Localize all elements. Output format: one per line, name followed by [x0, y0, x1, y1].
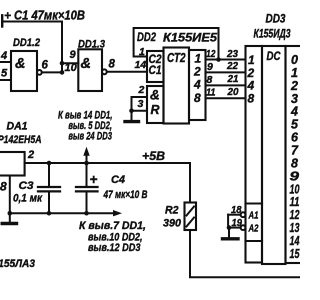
- pin 8 label: [207, 74, 213, 86]
- node junction DA1 gnd: [8, 211, 13, 216]
- svg-text:8: 8: [0, 180, 7, 194]
- svg-text:1: 1: [248, 53, 255, 67]
- svg-text:DD1.3: DD1.3: [78, 38, 105, 50]
- wire C1 to DD1.3 inputs: [61, 22, 63, 73]
- svg-text:3: 3: [291, 92, 298, 106]
- svg-text:4: 4: [247, 79, 255, 93]
- wire DD2 pin11 to DD3 pin20: [206, 97, 246, 99]
- svg-text:13: 13: [290, 221, 300, 235]
- pin 3 label: [138, 98, 144, 110]
- pin 6 wire: [42, 71, 62, 73]
- svg-text:С3: С3: [19, 180, 34, 192]
- svg-text:23: 23: [226, 48, 238, 60]
- svg-text:9: 9: [70, 49, 77, 61]
- svg-text:22: 22: [226, 60, 238, 72]
- pin 1 label: [139, 46, 145, 58]
- counter DD2 label: [137, 30, 217, 45]
- svg-text:5: 5: [1, 67, 8, 79]
- svg-text:1: 1: [139, 46, 145, 58]
- svg-text:К155ИЕ5: К155ИЕ5: [163, 31, 217, 45]
- svg-text:9: 9: [207, 61, 213, 73]
- svg-text:&: &: [15, 56, 25, 72]
- DD3 strobe input A1: [228, 212, 245, 217]
- node junction C4 top: [84, 161, 89, 166]
- svg-text:47 мк×10 В: 47 мк×10 В: [103, 189, 148, 201]
- ground under DD3 strobes: [223, 237, 239, 240]
- svg-text:12: 12: [206, 48, 216, 60]
- wire DD2 pin8 to DD3 pin21: [206, 84, 246, 86]
- DD1.3 ampersand: [81, 56, 91, 72]
- svg-text:4: 4: [193, 77, 201, 91]
- wire DD2 pin12 to DD3 pin23: [206, 59, 246, 61]
- DD2 reset ampersand: [150, 88, 160, 103]
- svg-text:R: R: [151, 103, 160, 117]
- pin 12 label: [206, 48, 216, 60]
- node junction C3 bottom: [47, 211, 52, 216]
- pin 18 label: [231, 204, 242, 216]
- regulator DA1 body: [0, 152, 25, 176]
- wire pins 2-3 tie: [131, 97, 133, 120]
- ground under DA1: [2, 222, 16, 225]
- node junction C4 bottom: [84, 211, 89, 216]
- gate DD1.3: [78, 49, 107, 91]
- wire 0V rail: [10, 212, 115, 214]
- DD1.3 label: [78, 38, 105, 50]
- svg-text:11: 11: [290, 195, 300, 209]
- pin 20 label: [227, 86, 239, 98]
- svg-text:6: 6: [291, 131, 299, 145]
- DD2 C1 label: [149, 65, 162, 77]
- svg-text:2: 2: [27, 149, 34, 161]
- pin 8 label: [109, 59, 116, 71]
- svg-text:11: 11: [206, 87, 216, 99]
- node pin12 junction: [216, 57, 221, 62]
- svg-text:DD2: DD2: [137, 30, 156, 44]
- wire +5V rail: [25, 163, 190, 203]
- svg-text:4: 4: [290, 105, 298, 119]
- svg-text:выв 24 DD3: выв 24 DD3: [68, 131, 112, 143]
- svg-text:DC: DC: [267, 49, 281, 63]
- pin 10 label: [65, 62, 78, 74]
- svg-text:&: &: [81, 56, 91, 72]
- svg-text:&: &: [150, 88, 160, 103]
- DD3 A2 label: [248, 222, 259, 234]
- DD2 R label: [151, 103, 160, 117]
- wire to ground: [228, 228, 230, 238]
- wire arrow to Vcc pins: [86, 153, 88, 163]
- svg-text:К155ИД3: К155ИД3: [254, 29, 291, 41]
- svg-text:8: 8: [291, 156, 298, 170]
- node junction C3 top: [47, 161, 52, 166]
- Vcc pins note: [58, 109, 113, 142]
- svg-text:14: 14: [135, 59, 147, 71]
- svg-text:10: 10: [65, 62, 78, 74]
- svg-text:DD1.2: DD1.2: [13, 37, 40, 49]
- svg-text:8: 8: [194, 91, 201, 105]
- DD1.2 label: [13, 37, 40, 49]
- svg-text:19: 19: [232, 217, 243, 229]
- pin 5 wire: [0, 79, 11, 81]
- DD3 A1 label: [248, 209, 259, 221]
- svg-text:8: 8: [248, 92, 255, 106]
- pin 21 label: [227, 73, 239, 85]
- svg-text:DA1: DA1: [7, 120, 28, 132]
- pin 2 wire: [132, 96, 148, 98]
- svg-text:DD3: DD3: [266, 14, 287, 26]
- svg-text:8: 8: [109, 59, 116, 71]
- GND pins note: [79, 220, 146, 254]
- wire feedback pin12 to pin1: [134, 28, 219, 60]
- node junction pin19: [227, 225, 232, 230]
- svg-text:0: 0: [291, 53, 298, 67]
- svg-text:К155ЛА3: К155ЛА3: [0, 258, 35, 270]
- pin 2 label: [27, 149, 34, 161]
- DD2 CT2 label: [167, 51, 186, 65]
- svg-text:С4: С4: [111, 174, 125, 186]
- wire DD2 pin9 to DD3 pin22: [206, 71, 246, 73]
- capacitor C4: [76, 163, 98, 213]
- svg-text:9: 9: [290, 169, 300, 183]
- pin 8 label: [0, 180, 7, 194]
- pin 2 label: [138, 84, 145, 96]
- DD1.2 ampersand: [15, 56, 25, 72]
- svg-text:2: 2: [290, 79, 298, 93]
- svg-text:С1 47мк×10В: С1 47мк×10В: [14, 9, 85, 23]
- svg-text:+: +: [90, 172, 98, 187]
- svg-text:А1: А1: [248, 209, 259, 221]
- capacitor C3: [38, 163, 60, 213]
- svg-text:2: 2: [247, 66, 255, 80]
- svg-text:4: 4: [0, 50, 7, 62]
- svg-text:+: +: [4, 9, 11, 23]
- svg-text:10: 10: [290, 182, 300, 196]
- pin 14 label: [135, 59, 147, 71]
- svg-text:20: 20: [227, 86, 239, 98]
- svg-text:0,1 мк: 0,1 мк: [13, 193, 42, 205]
- svg-text:2: 2: [193, 64, 201, 78]
- svg-text:8: 8: [207, 74, 213, 86]
- DD2 C2 label: [149, 54, 163, 66]
- svg-text:12: 12: [290, 208, 300, 222]
- DD2 weight labels 1 2 4 8: [193, 52, 202, 105]
- svg-text:1: 1: [291, 66, 298, 80]
- ground under DD2: [125, 120, 139, 123]
- C4 plus sign: [90, 172, 98, 187]
- decoder DD3 label: [254, 14, 291, 41]
- wire DA1 ground pin: [9, 176, 11, 222]
- node junction 10: [60, 70, 65, 75]
- capacitor C1: [2, 15, 62, 26]
- svg-text:390: 390: [163, 218, 182, 230]
- svg-text:18: 18: [231, 204, 242, 216]
- svg-text:14: 14: [290, 234, 300, 248]
- svg-text:7: 7: [291, 144, 299, 158]
- pin 9 label: [207, 61, 213, 73]
- node junction 9: [60, 61, 65, 66]
- svg-text:+5В: +5В: [142, 149, 165, 163]
- wire pins 18-19 tie: [227, 215, 229, 228]
- svg-text:R2: R2: [165, 205, 179, 217]
- svg-text:С1: С1: [149, 65, 162, 77]
- C3 label: [13, 180, 42, 205]
- regulator DA1 label: [0, 120, 42, 146]
- svg-text:6: 6: [42, 60, 49, 72]
- pin 4 wire: [0, 61, 11, 63]
- DD3 input weight labels: [247, 53, 256, 106]
- wire R2 bottom rail: [190, 230, 300, 277]
- svg-text:А2: А2: [248, 222, 259, 234]
- pin 22 label: [226, 60, 238, 72]
- +5V label: [142, 149, 165, 163]
- resistor R2: [185, 203, 197, 231]
- pin 3 wire: [132, 110, 148, 112]
- counter DD2 body: [147, 48, 206, 124]
- R2 label: [163, 205, 182, 230]
- decoder DD3 body: [246, 46, 304, 264]
- svg-text:3: 3: [138, 98, 144, 110]
- C1 value label: [14, 9, 85, 23]
- DD3 output labels 0-15: [290, 53, 301, 261]
- node junction pin3: [129, 108, 134, 113]
- pin 9 label: [70, 49, 77, 61]
- svg-text:К выв.7 DD1,: К выв.7 DD1,: [79, 220, 146, 232]
- svg-text:СТ2: СТ2: [167, 51, 186, 65]
- pin 11 label: [206, 87, 216, 99]
- C1 plus sign: [4, 9, 11, 23]
- svg-text:5: 5: [291, 118, 299, 132]
- pin 6 label: [42, 60, 49, 72]
- svg-text:КР142ЕН5А: КР142ЕН5А: [0, 134, 42, 146]
- gate DD1.2: [11, 51, 42, 91]
- DD1 type note: [0, 258, 35, 270]
- svg-text:15: 15: [290, 247, 301, 261]
- pin 19 label: [232, 217, 243, 229]
- C4 label: [103, 174, 148, 201]
- svg-text:21: 21: [227, 73, 239, 85]
- svg-text:выв.12 DD3: выв.12 DD3: [88, 242, 141, 254]
- pin 8 wire to DD2 C1: [107, 71, 147, 73]
- pin 9 wire: [62, 62, 78, 64]
- pin 23 label: [226, 48, 238, 60]
- svg-text:2: 2: [138, 84, 145, 96]
- DD3 strobe input A2: [228, 225, 245, 230]
- pin 5 label: [1, 67, 8, 79]
- DD3 DC label: [267, 49, 281, 63]
- pin 4 label: [0, 50, 7, 62]
- svg-text:1: 1: [195, 52, 202, 66]
